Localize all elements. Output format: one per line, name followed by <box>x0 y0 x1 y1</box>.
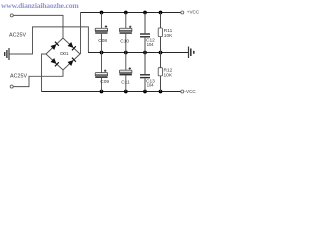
svg-text:10K: 10K <box>164 33 173 39</box>
svg-text:104: 104 <box>147 42 154 47</box>
svg-text:+VCC: +VCC <box>187 10 200 15</box>
svg-text:D01: D01 <box>60 51 69 57</box>
svg-text:C08: C08 <box>98 38 107 44</box>
svg-text:C11: C11 <box>121 80 130 86</box>
svg-text:104: 104 <box>147 82 154 87</box>
svg-text:C10: C10 <box>120 38 129 44</box>
svg-text:www.dianziaihaozhe.com: www.dianziaihaozhe.com <box>1 1 79 10</box>
svg-text:AC25V: AC25V <box>9 32 26 38</box>
svg-text:-VCC: -VCC <box>185 89 197 94</box>
svg-text:10K: 10K <box>164 72 173 78</box>
svg-text:C09: C09 <box>100 79 109 85</box>
svg-text:AC25V: AC25V <box>10 73 27 79</box>
